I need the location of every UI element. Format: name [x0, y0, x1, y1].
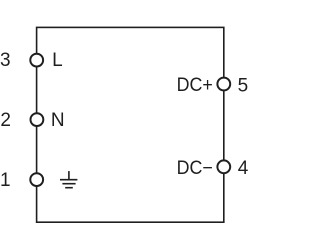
svg-text:N: N — [51, 110, 65, 131]
svg-text:DC+: DC+ — [177, 75, 213, 96]
svg-text:5: 5 — [238, 75, 249, 96]
svg-text:4: 4 — [238, 158, 249, 179]
svg-text:1: 1 — [0, 170, 11, 191]
svg-text:L: L — [52, 50, 63, 71]
svg-text:3: 3 — [0, 50, 11, 71]
svg-text:2: 2 — [0, 110, 11, 131]
svg-text:DC−: DC− — [177, 158, 213, 179]
